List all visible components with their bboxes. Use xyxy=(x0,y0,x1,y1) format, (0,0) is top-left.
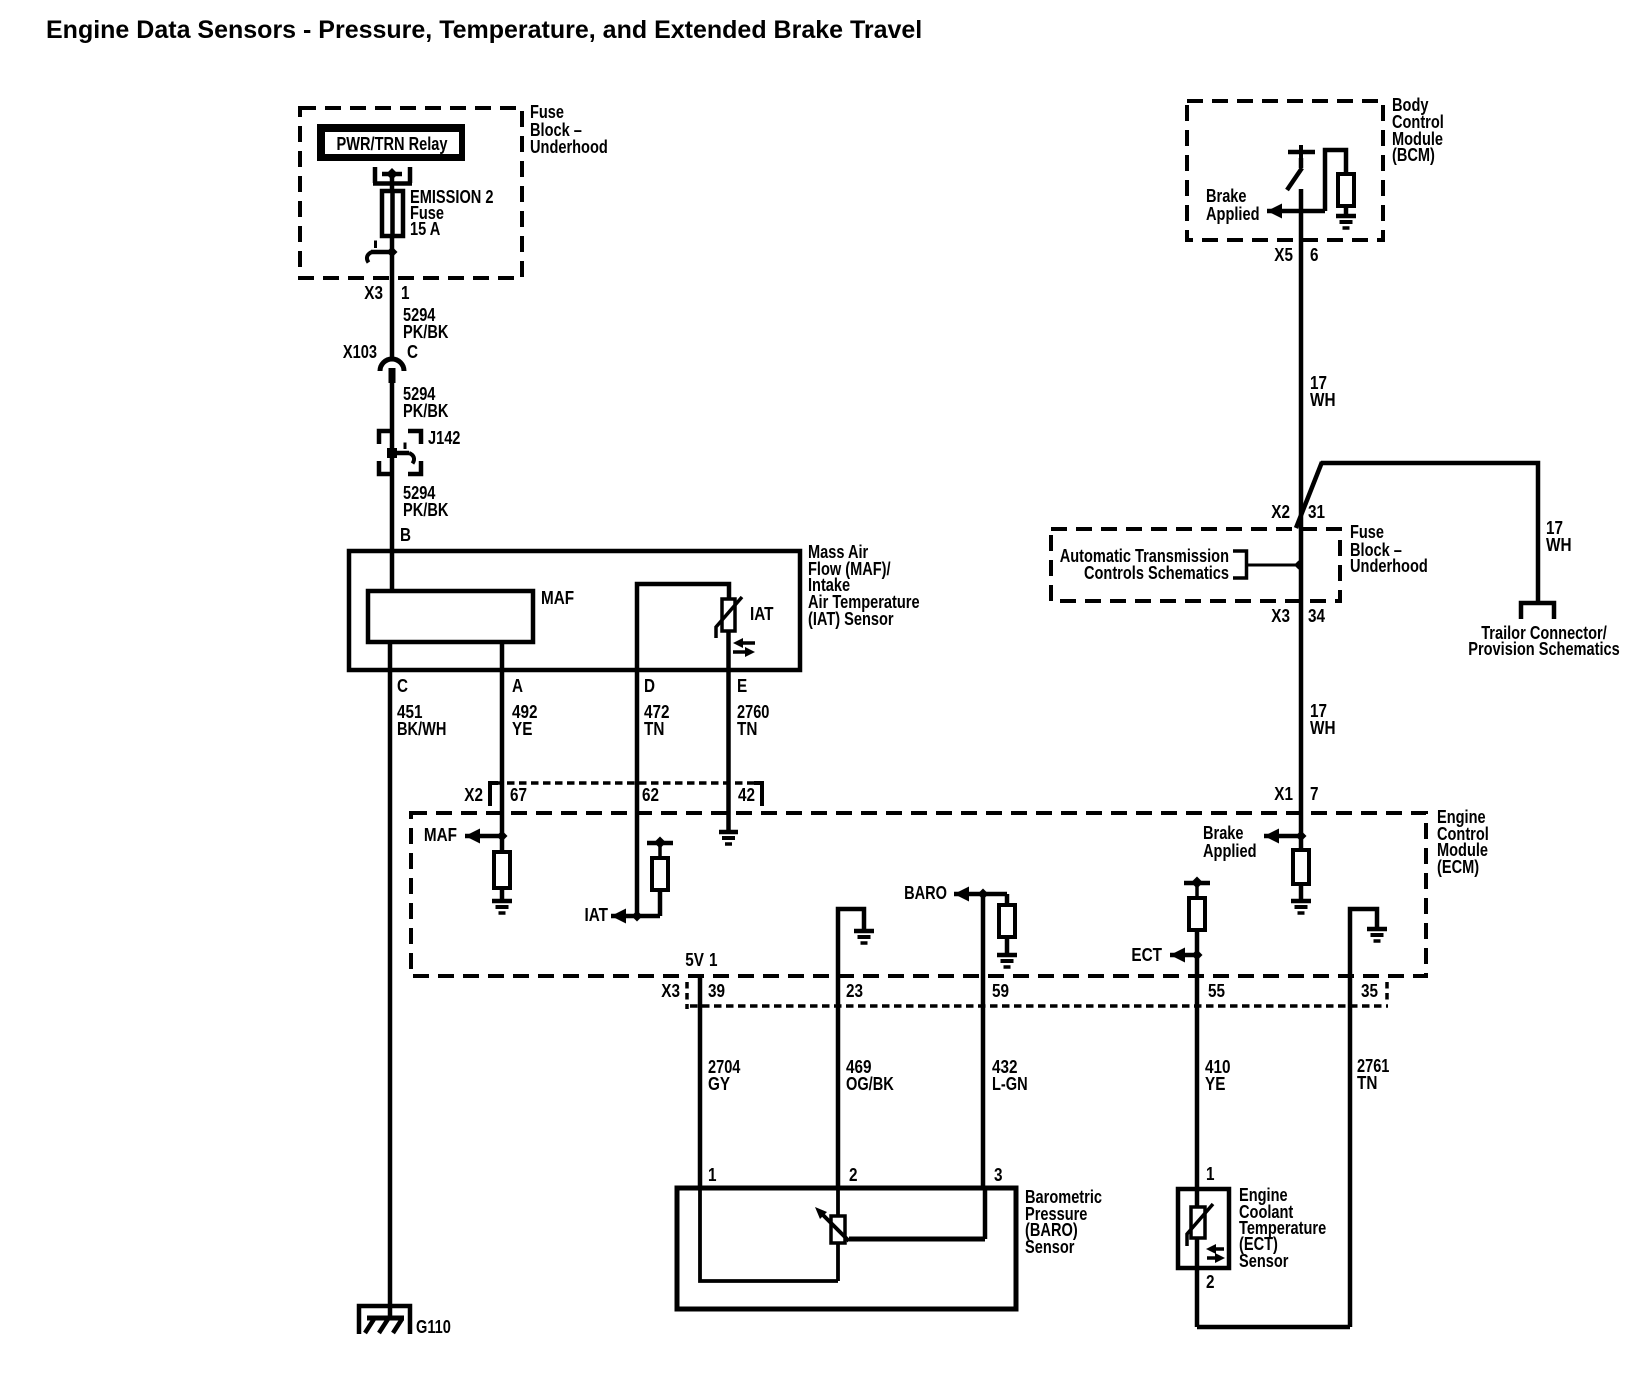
svg-text:TN: TN xyxy=(644,719,664,739)
svg-text:X3: X3 xyxy=(364,283,383,303)
svg-text:WH: WH xyxy=(1310,718,1336,738)
svg-text:3: 3 xyxy=(994,1165,1003,1185)
svg-text:Fuse: Fuse xyxy=(1350,522,1384,542)
svg-text:Applied: Applied xyxy=(1206,204,1260,224)
svg-text:Brake: Brake xyxy=(1206,186,1247,206)
svg-text:OG/BK: OG/BK xyxy=(846,1074,894,1094)
svg-text:15 A: 15 A xyxy=(410,219,440,239)
svg-text:E: E xyxy=(737,676,747,696)
svg-text:Fuse: Fuse xyxy=(530,102,564,122)
svg-text:Brake: Brake xyxy=(1203,823,1244,843)
svg-text:GY: GY xyxy=(708,1074,730,1094)
svg-text:YE: YE xyxy=(1205,1074,1225,1094)
svg-text:X5: X5 xyxy=(1274,245,1293,265)
svg-text:35: 35 xyxy=(1361,981,1378,1001)
svg-text:TN: TN xyxy=(1357,1073,1377,1093)
svg-text:34: 34 xyxy=(1308,606,1325,626)
svg-text:X3: X3 xyxy=(661,981,680,1001)
svg-text:2: 2 xyxy=(1206,1272,1215,1292)
svg-text:X1: X1 xyxy=(1274,784,1293,804)
svg-text:31: 31 xyxy=(1308,502,1325,522)
svg-text:Provision Schematics: Provision Schematics xyxy=(1468,639,1620,659)
svg-text:X2: X2 xyxy=(464,785,483,805)
svg-text:PK/BK: PK/BK xyxy=(403,500,448,520)
svg-text:Sensor: Sensor xyxy=(1025,1237,1074,1257)
svg-text:1: 1 xyxy=(709,950,718,970)
svg-text:(ECM): (ECM) xyxy=(1437,857,1479,877)
svg-text:Controls Schematics: Controls Schematics xyxy=(1084,563,1229,583)
svg-text:BARO: BARO xyxy=(904,883,947,903)
svg-text:Sensor: Sensor xyxy=(1239,1251,1288,1271)
svg-text:B: B xyxy=(400,525,411,545)
svg-text:42: 42 xyxy=(738,785,755,805)
svg-text:39: 39 xyxy=(708,981,725,1001)
svg-text:Underhood: Underhood xyxy=(530,137,608,157)
svg-text:D: D xyxy=(644,676,655,696)
svg-text:Applied: Applied xyxy=(1203,841,1257,861)
svg-text:X103: X103 xyxy=(343,342,377,362)
svg-text:7: 7 xyxy=(1310,784,1319,804)
svg-text:5V: 5V xyxy=(685,950,704,970)
svg-text:A: A xyxy=(512,676,523,696)
svg-text:MAF: MAF xyxy=(424,825,457,845)
svg-text:IAT: IAT xyxy=(750,604,774,624)
svg-text:PK/BK: PK/BK xyxy=(403,401,448,421)
svg-text:ECT: ECT xyxy=(1131,945,1162,965)
svg-text:YE: YE xyxy=(512,719,532,739)
svg-text:Underhood: Underhood xyxy=(1350,556,1428,576)
svg-text:TN: TN xyxy=(737,719,757,739)
svg-text:WH: WH xyxy=(1546,535,1572,555)
svg-text:2: 2 xyxy=(849,1165,858,1185)
svg-text:(BCM): (BCM) xyxy=(1392,145,1435,165)
svg-text:L-GN: L-GN xyxy=(992,1074,1028,1094)
svg-text:C: C xyxy=(407,342,418,362)
svg-text:G110: G110 xyxy=(416,1317,451,1337)
svg-text:55: 55 xyxy=(1208,981,1225,1001)
svg-text:1: 1 xyxy=(708,1165,717,1185)
svg-text:BK/WH: BK/WH xyxy=(397,719,446,739)
svg-text:X3: X3 xyxy=(1271,606,1290,626)
svg-text:J142: J142 xyxy=(428,428,460,448)
svg-text:(IAT) Sensor: (IAT) Sensor xyxy=(808,609,894,629)
svg-text:MAF: MAF xyxy=(541,588,574,608)
svg-text:IAT: IAT xyxy=(585,905,609,925)
svg-text:C: C xyxy=(397,676,408,696)
svg-text:1: 1 xyxy=(401,283,410,303)
svg-text:WH: WH xyxy=(1310,390,1336,410)
svg-text:6: 6 xyxy=(1310,245,1319,265)
svg-text:PK/BK: PK/BK xyxy=(403,322,448,342)
svg-text:Engine Data Sensors - Pressure: Engine Data Sensors - Pressure, Temperat… xyxy=(46,16,922,44)
svg-text:PWR/TRN Relay: PWR/TRN Relay xyxy=(337,134,448,154)
svg-text:67: 67 xyxy=(510,785,527,805)
svg-text:23: 23 xyxy=(846,981,863,1001)
svg-text:1: 1 xyxy=(1206,1164,1215,1184)
svg-text:X2: X2 xyxy=(1271,502,1290,522)
svg-text:59: 59 xyxy=(992,981,1009,1001)
svg-text:62: 62 xyxy=(642,785,659,805)
